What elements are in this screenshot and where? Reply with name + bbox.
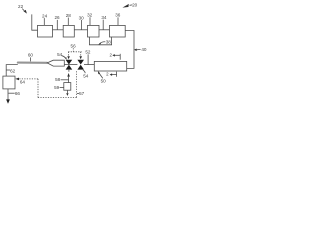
svg-text:62: 62 [10, 68, 16, 73]
wire 38 loop [89, 37, 111, 45]
label 38 [98, 39, 111, 44]
label 52 [85, 50, 91, 65]
label 32 [87, 13, 93, 26]
svg-text:22: 22 [18, 4, 24, 9]
feedback dashed riser [37, 79, 39, 98]
feedback dashed bottom run [38, 97, 77, 99]
svg-text:24: 24 [42, 13, 48, 18]
label 54 right [83, 70, 89, 79]
label 50 [98, 71, 106, 84]
svg-text:40: 40 [141, 47, 147, 52]
control line 56 (dashed) [68, 48, 81, 56]
svg-text:58: 58 [55, 77, 61, 82]
wire inlet to box 24 [32, 14, 38, 30]
svg-text:2: 2 [109, 53, 112, 58]
output line 66 with arrow [6, 89, 10, 104]
svg-text:36: 36 [115, 13, 121, 18]
section marker 2 bottom [106, 72, 116, 77]
sensor line 57 (dashed) [76, 71, 78, 97]
label 66 [8, 91, 20, 96]
label 28 [66, 13, 72, 26]
label 58 [55, 77, 68, 82]
node 22 leader arrow [22, 9, 27, 14]
box 28 [63, 25, 74, 37]
label 62 [6, 68, 15, 73]
stem down from device 58 with arrow [66, 90, 68, 96]
label 56 [71, 43, 77, 48]
label 24 [42, 13, 48, 25]
wire 26 [53, 29, 64, 31]
valve 54 right [77, 60, 84, 70]
stub below valve 54 left [68, 70, 70, 72]
svg-text:60: 60 [28, 53, 34, 58]
device box 58 [64, 83, 71, 91]
node 22 label [18, 4, 24, 9]
label 40 [134, 47, 147, 52]
conduit 60 (thick) [18, 62, 47, 64]
svg-text:30: 30 [79, 15, 85, 20]
section marker 2 top [109, 53, 120, 60]
label 64 [20, 80, 26, 85]
svg-text:59: 59 [54, 85, 60, 90]
controller box 62 [3, 76, 15, 89]
label 60 [28, 53, 34, 62]
label 26 [54, 15, 60, 30]
feedback dashed into controller 62 [15, 78, 38, 81]
pipe nozzle to valve [64, 64, 77, 66]
svg-text:28: 28 [66, 13, 72, 18]
svg-text:2: 2 [106, 72, 109, 77]
svg-text:56: 56 [71, 43, 77, 48]
node 20 label [132, 3, 138, 8]
label 36 [115, 13, 121, 26]
box 24 [38, 25, 53, 37]
control line 56 arrowheads [67, 56, 82, 59]
svg-text:34: 34 [101, 15, 107, 20]
svg-text:54: 54 [83, 74, 89, 79]
pipe valve to chamber 50 [84, 64, 94, 66]
wire controller 62 to conduit 60 [6, 65, 18, 77]
valve 54 left [66, 60, 73, 70]
box 32 [88, 25, 100, 37]
svg-text:32: 32 [87, 13, 93, 18]
svg-text:52: 52 [85, 50, 91, 55]
label 54 left [57, 52, 66, 60]
stem up from device 58 with arrow to valve [67, 73, 70, 83]
box 36 [110, 25, 126, 37]
svg-text:38: 38 [106, 39, 112, 44]
node 20 leader arrow [122, 4, 132, 8]
svg-text:50: 50 [101, 79, 107, 84]
svg-text:57: 57 [79, 91, 85, 96]
wire 40 exhaust [125, 31, 134, 69]
wire 34 [99, 29, 110, 31]
label 57 [77, 91, 85, 96]
svg-text:26: 26 [54, 15, 60, 20]
svg-text:20: 20 [132, 3, 138, 8]
combustor box 50 [94, 61, 126, 71]
svg-text:66: 66 [15, 91, 21, 96]
svg-text:64: 64 [20, 80, 26, 85]
wire 30 [74, 29, 87, 31]
label 59 [54, 85, 64, 90]
label 30 [79, 15, 85, 30]
label 34 [101, 15, 107, 30]
nozzle [47, 60, 64, 66]
